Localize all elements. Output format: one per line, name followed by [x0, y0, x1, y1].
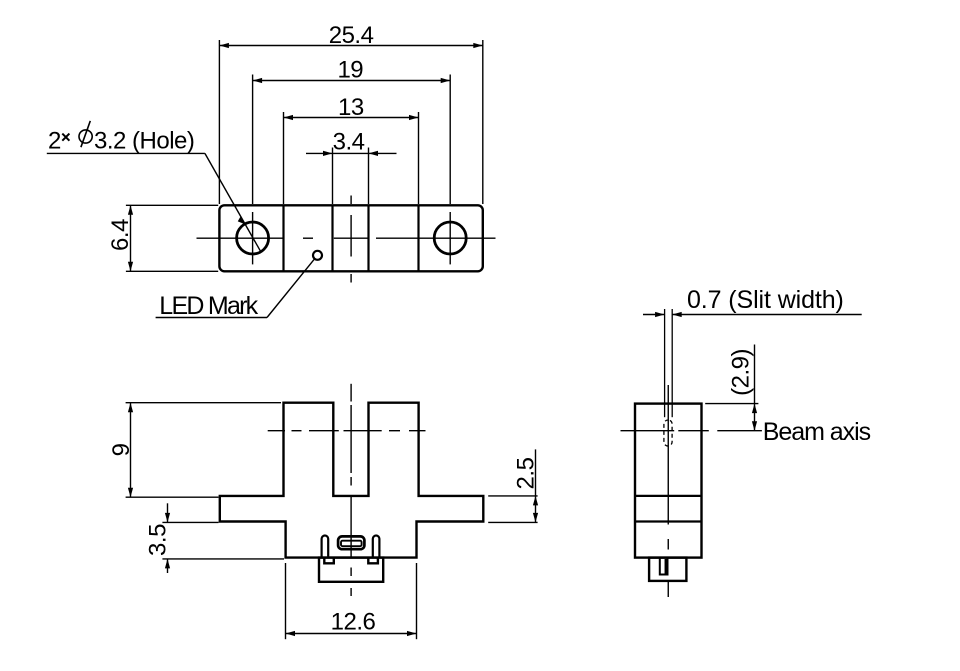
- svg-text:12.6: 12.6: [331, 609, 376, 636]
- svg-text:2: 2: [48, 128, 61, 155]
- svg-text:6.4: 6.4: [107, 219, 134, 251]
- svg-text:19: 19: [337, 57, 363, 84]
- svg-text:0.7 (Slit width): 0.7 (Slit width): [687, 286, 844, 314]
- svg-text:(2.9): (2.9): [728, 349, 755, 396]
- svg-text:9: 9: [108, 443, 135, 456]
- svg-text:25.4: 25.4: [329, 22, 374, 49]
- svg-text:3.2 (Hole): 3.2 (Hole): [94, 128, 194, 155]
- svg-text:LED Mark: LED Mark: [159, 292, 258, 320]
- svg-text:2.5: 2.5: [513, 457, 540, 489]
- svg-text:Beam axis: Beam axis: [763, 418, 871, 446]
- svg-text:13: 13: [338, 94, 364, 121]
- svg-text:3.5: 3.5: [145, 524, 172, 556]
- svg-text:3.4: 3.4: [333, 129, 365, 156]
